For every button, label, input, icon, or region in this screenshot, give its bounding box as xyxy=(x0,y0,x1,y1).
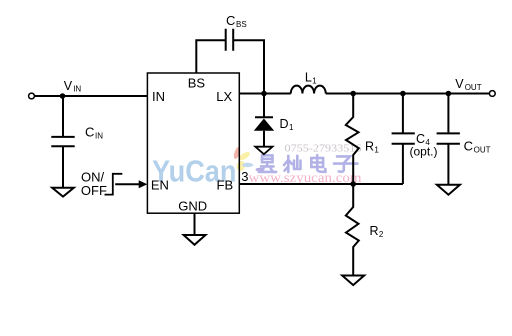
wire GND pin xyxy=(194,213,196,235)
svg-text:R: R xyxy=(365,140,374,154)
output terminal xyxy=(489,91,495,97)
svg-text:GND: GND xyxy=(178,199,207,214)
wire BS pin to CBS xyxy=(196,40,225,73)
svg-text:BS: BS xyxy=(236,20,247,29)
capacitor C4 xyxy=(392,94,415,185)
resistor R1 xyxy=(346,94,359,185)
ground GND pin xyxy=(184,235,206,245)
svg-text:V: V xyxy=(455,77,464,91)
svg-text:V: V xyxy=(64,79,73,93)
svg-text:D: D xyxy=(280,117,289,131)
svg-text:C: C xyxy=(226,13,235,28)
wire VIN to IN pin xyxy=(35,95,148,97)
node FB junction xyxy=(350,181,356,187)
wire LX to diode xyxy=(263,94,265,118)
ground D1 xyxy=(255,147,272,155)
svg-text:C: C xyxy=(464,139,473,154)
svg-text:LX: LX xyxy=(216,89,232,104)
wire LX pin to inductor xyxy=(239,93,290,95)
wire inductor to VOUT xyxy=(326,93,490,95)
IC U1 box xyxy=(147,73,239,213)
svg-text:IN: IN xyxy=(73,85,81,94)
capacitor CBS xyxy=(226,29,234,51)
input terminal xyxy=(29,93,35,99)
node VIN junction xyxy=(60,93,66,99)
svg-text:EN: EN xyxy=(151,178,169,193)
ON/OFF step symbol xyxy=(105,174,123,195)
inductor L1 xyxy=(291,86,326,94)
svg-text:L: L xyxy=(305,71,312,85)
svg-text:IN: IN xyxy=(152,89,165,104)
watermark logo YuCan xyxy=(152,146,264,188)
node R1 top junction xyxy=(350,91,356,97)
diode D1 xyxy=(254,119,274,131)
wire CBS to LX node xyxy=(233,40,264,92)
wire diode anode xyxy=(263,131,265,147)
capacitor COUT xyxy=(437,133,460,184)
resistor R2 xyxy=(346,184,359,275)
ground CIN xyxy=(52,188,74,197)
wire CIN top lead xyxy=(62,96,64,136)
svg-text:OUT: OUT xyxy=(465,83,482,92)
svg-text:1: 1 xyxy=(374,146,379,155)
svg-text:OUT: OUT xyxy=(474,146,491,155)
arrowhead EN xyxy=(139,180,148,188)
watermark chinese 昱灿电子 xyxy=(259,155,358,172)
ground COUT xyxy=(437,185,460,195)
svg-text:R: R xyxy=(370,224,379,238)
wire COUT lead xyxy=(447,94,449,133)
svg-text:IN: IN xyxy=(95,131,103,140)
node COUT top junction xyxy=(446,91,452,97)
ground R2 xyxy=(342,276,364,286)
svg-text:www.szyucan.com: www.szyucan.com xyxy=(249,170,363,185)
svg-text:2: 2 xyxy=(379,230,384,239)
node C4 top junction xyxy=(400,91,406,97)
capacitor CIN xyxy=(51,137,74,188)
node LX junction xyxy=(261,91,267,97)
svg-text:OFF: OFF xyxy=(81,183,107,198)
diode D1 cathode bar xyxy=(255,116,273,118)
svg-text:(opt.): (opt.) xyxy=(410,145,438,159)
svg-text:FB: FB xyxy=(217,178,234,193)
svg-text:3: 3 xyxy=(241,169,248,184)
svg-text:0755-27933516: 0755-27933516 xyxy=(285,143,362,154)
svg-text:C: C xyxy=(85,124,94,139)
svg-text:1: 1 xyxy=(312,77,317,86)
wire EN arrow xyxy=(115,183,139,185)
svg-text:BS: BS xyxy=(188,76,206,91)
svg-text:1: 1 xyxy=(289,123,294,132)
wire FB pin to C4 bottom xyxy=(239,183,403,185)
